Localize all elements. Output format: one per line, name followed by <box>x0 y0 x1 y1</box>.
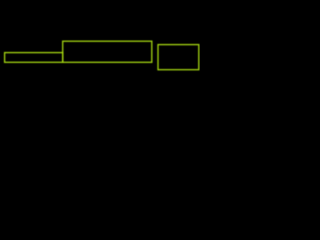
box left <box>5 53 63 63</box>
box right <box>158 45 199 70</box>
box middle <box>63 41 152 62</box>
